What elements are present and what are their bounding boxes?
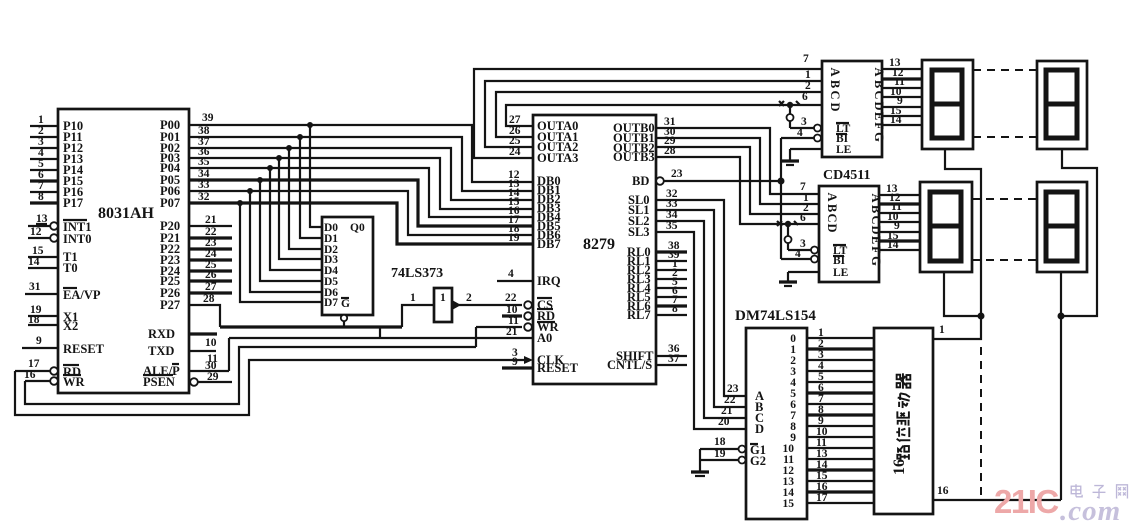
svg-text:19: 19 [714,448,726,460]
OUTB2 wire pin29 to decoder2 C [656,135,819,214]
SL1 wire pin33 to DM74LS154 B [656,198,746,407]
svg-text:14: 14 [28,256,40,268]
svg-text:7: 7 [803,53,809,65]
svg-text:27: 27 [205,281,217,293]
svg-text:B: B [825,204,839,212]
svg-text:A0: A0 [537,331,552,345]
P05 branch to latch D5 [260,180,322,281]
svg-text:14: 14 [887,239,899,251]
svg-text:BD: BD [632,174,649,188]
RL0 stub pin38 [656,240,687,252]
TXD stub pin11 [189,351,218,365]
port1 stub pin7 P16 [30,180,58,192]
RXD stub pin10 [189,334,217,349]
ground symbol lower [779,282,797,286]
RL3 stub pin2 [656,267,687,279]
8031 pin labels right column [143,118,181,389]
8031 pin labels left column [63,119,105,389]
svg-text:B: B [828,80,842,88]
svg-text:31: 31 [29,281,41,293]
svg-text:G: G [869,256,883,266]
BI bus vertical linking both decoders [780,138,782,259]
seven-segment display DS2 top-right [1037,61,1087,149]
svg-text:P27: P27 [160,298,180,312]
P07 bus wire to DB7 pin32 [189,191,533,244]
svg-text:P17: P17 [63,196,83,210]
8279 WR jog wire pin11 [476,315,532,347]
P00 bus wire to DB0 with pin39 [189,112,533,182]
port1 stub pin6 P15 [30,169,58,181]
svg-text:29: 29 [207,371,219,383]
svg-text:16: 16 [937,485,949,497]
port1 stub pin2 P11 [30,125,58,137]
INT0 stub pin12 with bubble [28,226,58,242]
T1 stub pin15 [28,245,58,257]
RESET stub pin9 [22,335,58,348]
svg-text:D7: D7 [324,297,338,309]
svg-text:8: 8 [38,191,44,203]
decoder U3 CD4511 upper body [822,61,882,157]
svg-text:DB7: DB7 [537,237,561,251]
svg-text:15: 15 [783,498,795,510]
gate input wire 1 [402,292,434,327]
P03 bus wire to DB3 pin36 [189,146,533,209]
svg-text:16: 16 [891,459,908,475]
ground symbol decoder [691,472,709,476]
P00 branch down to latch D0 [310,125,322,227]
P26 stub pin27 [189,281,232,293]
port1 stub pin8 P17 [30,191,58,203]
seven-segment display DS1 top-left [922,60,973,149]
INT1 stub pin13 with bubble [28,213,58,230]
decoder U4 input pin numbers [800,181,809,224]
8279 DB pin numbers [508,169,520,244]
node right commons [1058,313,1065,320]
SHIFT stub pin36 [656,343,687,356]
decoder U3 input pin numbers [802,53,811,103]
CNTL/S stub pin37 [656,353,687,365]
node left commons [978,313,985,320]
U5 outputs 0-15 to driver [783,327,875,510]
svg-text:LE: LE [833,267,849,279]
RL1 stub pin39 [656,249,687,261]
P07 branch to latch D7 [240,203,322,302]
svg-text:26: 26 [205,269,217,281]
svg-text:CD4511: CD4511 [823,168,870,183]
decoder U3 LT pull wire pin3 with node circle [787,102,822,132]
svg-text:EA/VP: EA/VP [63,288,101,302]
P04 branch to latch D4 [270,168,322,270]
svg-text:17: 17 [816,492,828,504]
svg-text:2: 2 [466,292,472,304]
port1 stub pin4 P13 [30,147,58,159]
svg-text:14: 14 [890,114,902,126]
8279 CLK arrowhead pin3 [512,347,533,364]
svg-text:32: 32 [198,191,210,203]
svg-text:8031AH: 8031AH [98,205,155,222]
svg-text:9: 9 [36,335,42,347]
svg-text:39: 39 [202,112,214,124]
P04 bus wire to DB4 pin35 [189,156,533,217]
P23 stub pin24 [189,248,232,260]
gate U7 buffer 74LS373 enable [434,288,452,322]
svg-text:19: 19 [508,232,520,244]
EA/VP stub pin31 [25,281,58,294]
SL3 wire pin35 to DM74LS154 D [656,220,746,429]
svg-text:DM74LS154: DM74LS154 [735,308,816,324]
P25 stub pin26 [189,269,232,281]
svg-text:P07: P07 [160,196,180,210]
svg-text:3: 3 [800,238,806,250]
U5 input pin numbers [718,383,739,428]
svg-text:RXD: RXD [148,327,175,341]
decoder U4 CD4511 lower body [819,186,879,282]
OUTA1 wire pin26 to decoder C [496,92,822,137]
PSEN stub pin29 with bubble [190,371,232,386]
svg-text:35: 35 [666,220,678,232]
decoder U4 LT pull wire pin3 with node circle [785,221,819,254]
8279 RESET stub pin9 [502,356,533,368]
svg-text:8: 8 [672,303,678,315]
DS1 common wire [945,149,981,316]
display controller U8 8279 body [533,115,656,384]
decoder U4 BI wire pin4 from BD net [781,248,818,263]
OUTB0 wire pin31 to decoder2 A [656,116,819,194]
svg-text:LE: LE [836,144,852,156]
driver output 1 wire [933,316,981,339]
svg-text:8279: 8279 [583,236,615,253]
X2 stub pin18 [28,314,58,326]
P01 bus wire to DB1 pin38 [189,125,533,191]
svg-text:1: 1 [410,292,416,304]
svg-text:C: C [825,213,839,222]
SL2 wire pin34 to DM74LS154 C [656,209,746,418]
gate output wire 2 to CS [452,292,532,310]
svg-text:10: 10 [205,337,217,349]
svg-text:4: 4 [508,268,514,280]
chip-select thick line from P27 [220,325,402,328]
OUTA3 wire pin24 to decoder A [474,69,822,158]
P24 stub pin25 [189,259,232,271]
svg-text:4: 4 [797,127,803,139]
SL0 wire pin32 to DM74LS154 A [656,188,746,396]
A0 line from ALE to 8279 A0 pin21 [229,326,533,338]
P27 wire pin28 down to chip-select line [189,293,220,327]
port1 stub pin3 P12 [30,136,58,148]
svg-text:OUTA3: OUTA3 [537,151,578,165]
T0 stub pin14 [28,256,58,268]
svg-text:IRQ: IRQ [537,274,561,288]
driver output 16 wire [933,485,1061,500]
svg-text:4: 4 [795,248,801,260]
RL6 stub pin7 [656,294,687,306]
8279 RD stub pin10 [502,304,532,320]
svg-text:18: 18 [714,436,726,448]
svg-text:74LS373: 74LS373 [391,266,443,281]
svg-text:21IC: 21IC [994,483,1058,520]
seven-segment display DS4 bottom-right [1037,182,1087,272]
svg-text:G2: G2 [750,454,766,468]
svg-text:CNTL/S: CNTL/S [607,358,652,372]
OUTA2 wire pin25 to decoder B [485,81,822,147]
svg-text:1: 1 [440,292,446,304]
microcontroller U1 8031AH body [58,109,189,393]
seven-segment display DS3 bottom-left [920,182,972,272]
port1 stub pin1 P10 [30,114,58,126]
DS2 common wire [1061,149,1097,316]
P20 stub pin21 [189,214,232,226]
svg-text:28: 28 [664,145,676,157]
decoder U3 BI wire pin4 from BD net [781,127,821,142]
P21 stub pin22 [189,226,232,238]
svg-text:21: 21 [205,214,217,226]
RL4 stub pin5 [656,276,687,288]
svg-text:TXD: TXD [148,344,174,358]
svg-text:37: 37 [668,353,680,365]
svg-text:RESET: RESET [63,342,105,356]
svg-text:X2: X2 [63,319,78,333]
decoder U3 LE wire pin5 to ground [790,149,822,160]
svg-text:C: C [872,90,886,99]
DS4 common wire [1060,272,1062,500]
dashed continuation wires between displays [973,69,1037,71]
svg-text:F: F [872,122,886,130]
svg-text:18: 18 [28,314,40,326]
BD wire pin23 with bubble and junction [656,168,784,185]
RL5 stub pin6 [656,285,687,297]
svg-text:6: 6 [800,212,806,224]
svg-text:SL3: SL3 [628,225,650,239]
P03 branch to latch D3 [279,158,322,259]
svg-text:10: 10 [506,304,518,316]
ground symbol upper [781,161,799,165]
P06 branch to latch D6 [250,191,322,292]
RD pin17 wire wrap-around to 8279 CLK [15,358,525,415]
P06 bus wire to DB6 pin33 [189,179,533,235]
decoder U4 output wires to display pins 13 12 11 10 9 15 14 [879,183,920,251]
decoder U5 DM74LS154 body [746,328,807,519]
svg-text:33: 33 [198,179,210,191]
port1 stub pin5 P14 [30,158,58,170]
svg-text:WR: WR [63,375,86,389]
P05 bus wire to DB5 pin34 [189,168,533,226]
svg-text:.com: .com [1060,495,1121,527]
svg-text:9: 9 [512,356,518,368]
8279 IRQ stub pin4 [497,268,533,281]
svg-text:INT0: INT0 [63,232,91,246]
svg-text:G: G [872,132,886,142]
svg-text:OUTB3: OUTB3 [613,150,655,164]
P22 stub pin23 [189,237,232,249]
svg-text:A: A [828,67,842,76]
svg-text:16: 16 [24,369,36,381]
latch G enable bubble to ALE line [341,315,347,327]
OUTA0 wire pin27 to decoder D [506,105,822,126]
svg-text:23: 23 [671,168,683,180]
OUTB3 wire pin28 to decoder2 D [656,145,819,224]
svg-text:A: A [825,192,839,201]
svg-text:27: 27 [509,114,521,126]
decoder U3 output wires to display pins 13 12 11 10 9 15 14 [882,57,922,126]
OUTB1 wire pin30 to decoder2 B [656,126,819,204]
DS3 common wire [944,272,981,316]
svg-text:D: D [825,223,839,232]
svg-text:D: D [828,102,842,111]
RL7 stub pin8 [656,303,687,315]
P01 branch to latch D1 [300,137,322,238]
dashed rail to remaining digits [980,347,982,497]
svg-text:RL7: RL7 [627,308,651,322]
WR pin16 wire wrap-around to 8279 WR [24,347,476,404]
svg-text:RESET: RESET [537,361,579,375]
junction tick marks upper [779,101,800,106]
latch U2 74LS373 body [322,217,373,315]
svg-text:D: D [755,422,764,436]
decoder U4 LE wire pin5 to ground [788,272,819,281]
svg-text:28: 28 [203,293,215,305]
svg-text:22: 22 [505,292,517,304]
svg-text:C: C [869,215,883,224]
U5 G1 G2 enable wires to ground [700,436,746,471]
RL2 stub pin1 [656,258,687,270]
svg-text:1: 1 [939,324,945,336]
X1 stub pin19 [28,304,58,316]
driver U6 16-way digit driver body [874,328,933,514]
svg-text:T0: T0 [63,261,78,275]
svg-text:D: D [869,225,883,234]
svg-text:6: 6 [802,91,808,103]
svg-text:C: C [828,90,842,99]
svg-text:Q0: Q0 [350,222,365,234]
P02 bus wire to DB2 pin37 [189,136,533,200]
P02 branch to latch D2 [289,148,322,249]
svg-text:G: G [341,298,350,310]
step joint between select line and A0 line [379,327,381,338]
junction tick marks lower [777,221,798,226]
svg-text:35: 35 [198,156,210,168]
svg-text:12: 12 [30,226,42,238]
svg-text:20: 20 [718,416,730,428]
watermark chinese [1071,484,1127,498]
svg-text:PSEN: PSEN [143,375,175,389]
ALE/P wire pin30 to A0 line [189,338,229,372]
